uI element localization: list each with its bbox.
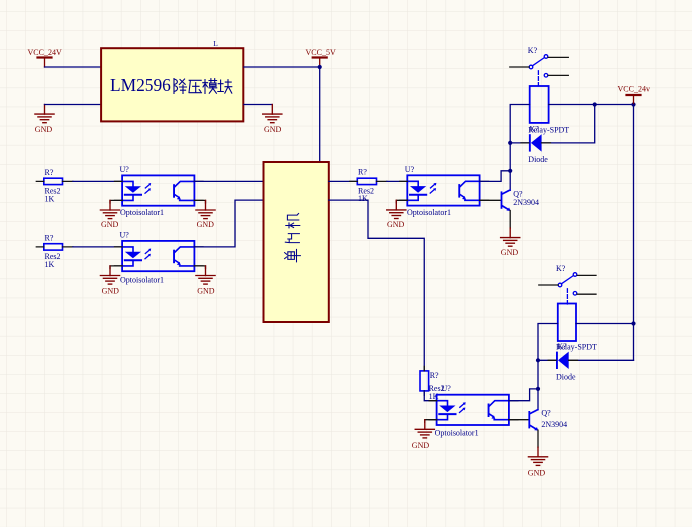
svg-text:K?: K?: [556, 264, 566, 273]
wire U3 emitter to Q1 base: [480, 199, 501, 201]
svg-text:Diode: Diode: [528, 155, 548, 164]
transistor Q1 2N3904: [501, 189, 539, 211]
diode D2: [556, 352, 576, 382]
switch K1: [528, 46, 548, 86]
switch K2: [556, 264, 577, 304]
wire R3 to opto U3: [387, 180, 407, 182]
ground GND U1 output: [196, 200, 215, 229]
wire LM2596 out2 to GND: [244, 104, 272, 106]
node VCC_24v junction: [631, 102, 635, 106]
svg-text:1K: 1K: [358, 194, 368, 203]
node diode1 top junction: [593, 102, 597, 106]
resistor R1: [36, 168, 73, 204]
svg-text:GND: GND: [387, 220, 405, 229]
svg-text:GND: GND: [528, 468, 546, 477]
wire R1 to opto U1: [73, 180, 122, 182]
svg-text:Optoisolator1: Optoisolator1: [120, 208, 164, 217]
svg-text:1K: 1K: [45, 195, 55, 204]
svg-text:R?: R?: [45, 168, 54, 177]
wire diode1: [510, 105, 595, 143]
wire U2 cathode to ground: [110, 266, 122, 269]
wire U3 cathode to ground: [396, 200, 407, 203]
ground GND U2 LED: [100, 266, 119, 296]
wire MCU pin to U4 path: [329, 200, 424, 371]
wire K1 leads: [510, 57, 569, 75]
svg-text:Q?: Q?: [541, 409, 551, 418]
svg-text:GND: GND: [197, 287, 215, 296]
svg-text:Optoisolator1: Optoisolator1: [407, 208, 451, 217]
wire diode2: [538, 359, 634, 361]
wire U3 collector to Q1 collector node: [480, 171, 511, 182]
transistor Q2 2N3904: [528, 409, 567, 431]
power VCC_5V: [306, 48, 336, 67]
node diode2 left junction: [536, 358, 540, 362]
svg-text:VCC_24V: VCC_24V: [28, 48, 62, 57]
wire MCU to R3: [329, 180, 358, 182]
ground GND top-left: [35, 105, 54, 134]
svg-text:K?: K?: [528, 46, 538, 55]
wire U4 emitter to Q2 base: [509, 419, 529, 421]
wire relay1 left pin to Q1 collector: [510, 105, 530, 191]
svg-text:K?: K?: [557, 342, 567, 351]
wire R4 to opto U4: [424, 391, 436, 401]
wire U2 collector to MCU pin2: [194, 200, 263, 247]
wire relay1 right pin to VCC: [549, 104, 634, 106]
node relay2 right junction: [631, 321, 635, 325]
ground GND under LM2596: [263, 105, 282, 134]
label 机 (rotated): [286, 214, 300, 228]
svg-text:R?: R?: [430, 371, 439, 380]
svg-text:2N3904: 2N3904: [513, 198, 539, 207]
node VCC_5V junction: [318, 65, 322, 69]
wire VCC_24v rail down: [633, 105, 635, 361]
optoisolator U1: [120, 165, 195, 217]
node diode1 left junction: [508, 141, 512, 145]
svg-text:K?: K?: [530, 125, 540, 134]
svg-text:U?: U?: [442, 384, 452, 393]
svg-text:Optoisolator1: Optoisolator1: [435, 428, 479, 437]
label 降: [174, 79, 187, 94]
ground GND U3: [387, 200, 406, 229]
svg-text:GND: GND: [197, 220, 215, 229]
wire U2 emitter to ground: [194, 266, 205, 269]
optoisolator U2: [120, 231, 195, 285]
label 块: [218, 80, 232, 93]
svg-text:L: L: [213, 39, 218, 48]
pin stubs U2: [115, 247, 204, 266]
svg-text:GND: GND: [101, 220, 119, 229]
wire K2 leads: [539, 275, 596, 294]
svg-text:GND: GND: [102, 287, 120, 296]
relay K1 coil Relay-SPDT: [528, 86, 569, 134]
svg-text:GND: GND: [412, 441, 430, 450]
label 片 (rotated): [285, 234, 299, 243]
node Q1 collector junction: [508, 169, 512, 173]
pin stubs U4: [429, 401, 518, 420]
wire U1 emitter to ground: [194, 200, 205, 203]
svg-text:VCC_24v: VCC_24v: [618, 85, 650, 94]
power VCC_24v: [618, 85, 650, 105]
wire relay2 right pin to VCC rail: [576, 323, 634, 325]
wire R2 to opto U2: [73, 246, 122, 248]
power VCC_24V: [28, 48, 62, 67]
svg-text:Optoisolator1: Optoisolator1: [120, 275, 164, 284]
wire U1 collector to MCU: [194, 180, 263, 182]
ground GND Q1: [501, 228, 520, 257]
pin stubs U1: [115, 181, 204, 200]
optoisolator U3: [405, 165, 480, 217]
relay K2 coil Relay-SPDT: [556, 304, 597, 352]
ground GND U2 output: [196, 266, 215, 296]
resistor R4: [420, 366, 445, 401]
svg-text:U?: U?: [120, 231, 130, 240]
svg-text:1K: 1K: [45, 260, 55, 269]
svg-text:2N3904: 2N3904: [541, 420, 567, 429]
wire relay2 left pin down to Q2: [538, 324, 558, 410]
label 压: [189, 80, 202, 92]
ground GND Q2: [528, 447, 548, 477]
pin stubs U3: [400, 181, 489, 200]
wire LM2596 out to VCC_5V node: [244, 66, 320, 68]
node Q2 collector junction: [536, 387, 540, 391]
resistor R3: [350, 168, 387, 203]
svg-text:U?: U?: [405, 165, 415, 174]
wire VCC_24V to LM2596: [45, 66, 102, 68]
wire U4 collector to Q2 collector node: [509, 389, 538, 401]
module MCU 单片机: [264, 162, 329, 322]
resistor R2: [36, 234, 73, 270]
module LM2596 buck converter: [101, 39, 243, 121]
diode D1: [528, 134, 548, 164]
label 模: [203, 79, 217, 94]
svg-text:R?: R?: [358, 168, 367, 177]
wire VCC_5V down to MCU: [319, 67, 321, 162]
svg-text:GND: GND: [35, 125, 53, 134]
wire U4 cathode to ground: [425, 420, 437, 423]
svg-text:R?: R?: [45, 234, 54, 243]
wire Q2 emitter to ground: [537, 430, 539, 447]
ground GND U4: [412, 420, 435, 450]
svg-text:GND: GND: [501, 248, 519, 257]
svg-text:Diode: Diode: [556, 373, 576, 382]
wire Q1 emitter to ground: [509, 211, 511, 229]
svg-text:GND: GND: [264, 125, 282, 134]
optoisolator U4: [435, 384, 509, 437]
wire U1 cathode to ground: [110, 200, 122, 203]
ground GND U1 LED: [100, 200, 119, 229]
svg-text:LM2596: LM2596: [110, 75, 171, 95]
label 单 (rotated): [285, 249, 301, 261]
svg-text:U?: U?: [120, 165, 130, 174]
wire GND to LM2596: [45, 104, 102, 106]
svg-text:VCC_5V: VCC_5V: [306, 48, 336, 57]
